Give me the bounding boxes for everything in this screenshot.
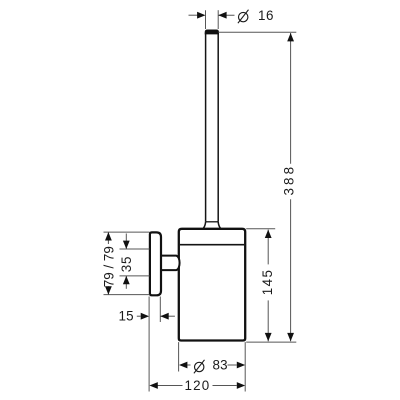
dim 79/79 label: [102, 246, 117, 287]
rod top cap: [205, 30, 219, 35]
wall plate: [150, 232, 161, 295]
brush handle rod: [206, 33, 219, 222]
dim 15 line: [137, 315, 175, 317]
dim 388 line: [290, 33, 292, 341]
dim Ø16 extension lines: [206, 10, 219, 29]
dim Ø83 extension lines: [179, 342, 246, 391]
svg-text:79 / 79: 79 / 79: [102, 246, 117, 287]
dim Ø16 line: [189, 14, 235, 16]
dim Ø16 label: [238, 10, 249, 24]
lid bottom line: [180, 244, 244, 246]
dim 145 arrows: [265, 230, 272, 342]
dim 79/79 line: [107, 232, 109, 295]
dim Ø83 label: [194, 360, 205, 374]
dim Ø16 arrows: [197, 12, 226, 19]
dim 79/79 extension lines: [104, 232, 150, 295]
svg-text:388: 388: [282, 164, 297, 196]
dim Ø83 arrows: [179, 362, 245, 369]
dim 145 label: [260, 269, 275, 296]
dim 388 label: [282, 164, 297, 196]
dim Ø83 line: [187, 364, 237, 366]
svg-text:145: 145: [260, 269, 275, 296]
svg-text:120: 120: [185, 378, 211, 393]
dim 35 label: [119, 256, 134, 273]
dim 35 line: [125, 234, 127, 289]
dim 15 arrows: [141, 313, 169, 320]
dim 35 extension lines: [120, 249, 150, 276]
svg-text:83: 83: [212, 358, 228, 373]
dim 79/79 arrows: [105, 232, 112, 295]
dim 388 top extension: [218, 31, 296, 33]
dim 120 line: [157, 385, 237, 387]
mounting arm: [161, 256, 180, 271]
svg-text:16: 16: [258, 8, 274, 23]
dim 145 top extension: [246, 228, 275, 230]
dim 35 arrows: [123, 241, 130, 285]
svg-text:15: 15: [118, 309, 134, 324]
dim 120 arrows: [149, 382, 245, 389]
dim 145 line: [267, 230, 269, 342]
dim 388 arrows: [287, 33, 294, 341]
dim 15 extension lines: [149, 297, 160, 392]
dim 388 bottom extension: [246, 341, 296, 343]
rod junction line: [206, 221, 219, 223]
container (cup): [179, 229, 245, 341]
rod flare right: [218, 222, 220, 229]
rod flare left: [203, 222, 205, 229]
svg-text:35: 35: [119, 256, 134, 273]
